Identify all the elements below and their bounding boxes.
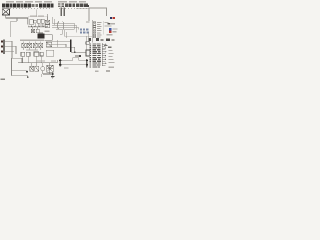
heavy bus wire vertical	[70, 40, 72, 53]
table header dark mark	[89, 38, 91, 41]
tiny label mid	[64, 67, 68, 68]
arrow tick	[41, 74, 43, 77]
relay K4	[33, 43, 37, 50]
junction dot	[26, 71, 28, 73]
fuse pin ticks below row	[10, 8, 87, 9]
relay K7 box	[46, 42, 51, 47]
fuse row F1-F14	[2, 3, 54, 7]
wire with step	[61, 58, 86, 61]
oval connector P1	[58, 22, 64, 30]
wires from solenoid	[45, 35, 53, 41]
junction dot bus	[79, 55, 81, 57]
bottom cluster bus line	[18, 60, 57, 63]
pin list dense block	[89, 49, 100, 67]
relay K1 small boxes	[45, 20, 49, 28]
cable W2 dashes row 2	[80, 32, 89, 34]
module box M3	[46, 50, 54, 56]
vertical feed wire	[57, 40, 59, 47]
motor M2 box	[35, 63, 39, 72]
junction dot bottom	[52, 73, 54, 75]
switch drop wires	[31, 23, 43, 27]
terminal ladder T1	[93, 20, 96, 43]
wires through connector P1	[52, 23, 78, 29]
splice bar right	[86, 59, 87, 67]
wire fuse row to switch group	[36, 10, 38, 17]
fuse block top labels	[6, 1, 86, 2]
pin list rows upper	[89, 43, 111, 48]
stub labels right	[95, 50, 115, 72]
relay top ticks	[24, 41, 41, 43]
lamp circle	[41, 67, 45, 71]
long wire to right box	[64, 35, 92, 37]
splice bar left	[60, 59, 61, 66]
battery B1 (box with X)	[2, 9, 9, 15]
nested corner wires	[60, 30, 67, 38]
wire drops to cable rows	[74, 23, 78, 32]
ignition switch label	[30, 15, 37, 16]
legend text right of codes	[106, 29, 117, 36]
relay K6 hatched box	[47, 63, 53, 72]
ladder pin labels	[97, 22, 102, 38]
wires below bottom cluster	[43, 71, 53, 76]
motor M1 box	[30, 63, 34, 72]
splice ticks	[59, 60, 88, 66]
wire code navy box	[110, 17, 112, 19]
bottom cluster labels	[36, 60, 45, 61]
pin list arrowheads	[105, 44, 106, 64]
wire node A vertical	[11, 18, 17, 37]
relay row 2 boxes	[21, 52, 43, 56]
relay K5	[39, 43, 43, 50]
small label under switch	[38, 24, 45, 25]
bus branch	[71, 47, 87, 56]
relay row 2 label	[26, 50, 38, 51]
corner label text	[1, 79, 6, 81]
wire battery to bus	[6, 15, 28, 25]
label under box corner	[86, 21, 89, 22]
legend text rows	[105, 22, 115, 27]
pin list arrow stubs	[102, 44, 105, 65]
connector J1 pins	[1, 40, 3, 52]
bus wire horizontal	[28, 26, 48, 28]
wires cluster to right bus	[46, 41, 75, 47]
ladder divider line	[102, 21, 104, 35]
wire code red box 2	[109, 31, 112, 34]
component U2 small boxes row	[31, 27, 39, 33]
U2 side label	[45, 31, 50, 32]
wire relay row to junction box	[76, 7, 89, 9]
ground stub mark	[27, 77, 29, 78]
connector P2 small box	[86, 42, 90, 45]
relay block lower stubs	[60, 8, 62, 16]
straight wire lower	[61, 64, 86, 66]
connector P3 small box	[86, 50, 90, 56]
relay K2	[22, 43, 26, 50]
bottom left loop wires	[12, 58, 28, 77]
relay K3	[27, 43, 31, 50]
legend dark box	[108, 23, 110, 25]
cable W1 dashes row 1	[80, 29, 89, 31]
switch SW1 box	[30, 19, 45, 25]
junction box (large right open rect)	[89, 8, 107, 21]
switch group outline	[28, 17, 47, 27]
solenoid L1 (dark blob)	[38, 33, 45, 38]
resistor R1 vertical lead	[47, 14, 49, 20]
connector J1 (left bar)	[3, 40, 5, 55]
wire code red box	[113, 17, 115, 19]
wire code blue box	[109, 28, 112, 31]
wires from connector J1	[5, 41, 22, 62]
relay cluster label	[20, 40, 44, 41]
table header blobs	[96, 38, 99, 41]
right edge verticals	[86, 32, 88, 56]
pin list vertical line	[101, 43, 103, 66]
relay row 2 drop wires	[23, 56, 42, 63]
ground G1	[51, 76, 55, 78]
relay block row (right group)	[58, 3, 89, 7]
